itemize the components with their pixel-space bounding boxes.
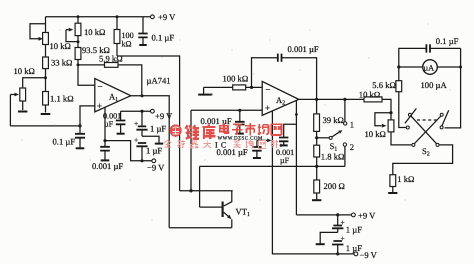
resistor 200 [314, 166, 345, 199]
wire pin5 to -9V [105, 141, 152, 161]
wire A1 output [131, 96, 232, 228]
svg-text:0.1 µF: 0.1 µF [152, 33, 175, 43]
potentiometer 10k (pot2) [66, 17, 105, 42]
capacitor 0.1uF (A1 + input) [53, 126, 86, 148]
node 93.5k / 5.9k / A1 minus [77, 63, 80, 66]
svg-text:10 kΩ: 10 kΩ [14, 66, 35, 76]
svg-text:0.1 µF: 0.1 µF [436, 36, 459, 46]
node -9V / 1uF [140, 159, 143, 162]
capacitor 1uF (upper, bottom pair) [332, 215, 362, 234]
ground under 1.1k [41, 113, 51, 115]
svg-text:kΩ: kΩ [122, 40, 132, 49]
svg-text:10 kΩ: 10 kΩ [50, 41, 71, 51]
wire 100k bias rail to VT1 node [117, 56, 180, 191]
svg-text:1.8 kΩ: 1.8 kΩ [321, 152, 345, 162]
wire A1 pin5 [104, 107, 106, 140]
svg-text:0.1 µF: 0.1 µF [53, 136, 76, 146]
potentiometer 10k (pot3) [10, 66, 35, 126]
node meter right / drop [459, 66, 462, 69]
capacitor 0.001uF (V- bypass) [217, 139, 272, 159]
svg-text:−: − [98, 82, 103, 92]
switch S2 [405, 108, 449, 157]
svg-text:µA741: µA741 [147, 76, 171, 86]
node 10k / pot [389, 111, 392, 114]
terminal +9V (A1) [151, 109, 155, 113]
node A2+ / VT1 [189, 189, 192, 192]
node A2 out / 39k [315, 98, 318, 101]
svg-text:1.1 kΩ: 1.1 kΩ [50, 94, 74, 104]
wire A2 + input [191, 110, 262, 191]
svg-text:1 kΩ: 1 kΩ [397, 174, 414, 184]
resistor 39k [314, 99, 344, 137]
wire top +9V rail [46, 16, 151, 18]
wire 1uF midpoint to ground [320, 232, 338, 243]
watermark text 电子市场网 [220, 123, 282, 135]
svg-text:1: 1 [350, 120, 354, 130]
node A1 output [140, 94, 143, 97]
capacitor 0.001uF (A2 feedback) [252, 44, 319, 99]
svg-text:+: + [134, 136, 138, 145]
node 33k/1.1k junction [44, 76, 47, 79]
scan speckles (decorative, unlabeled) [21, 23, 450, 220]
potentiometer 10k (pot1) [30, 17, 71, 57]
op-amp A2 [262, 81, 299, 115]
wire meter right [437, 66, 461, 68]
node top rail / 100k [116, 15, 119, 18]
ground A2 input [203, 87, 205, 94]
node A2 minus / feedback [250, 86, 253, 89]
svg-text:1 µF: 1 µF [346, 224, 362, 234]
wire bottom-left to A1 + input [10, 106, 94, 126]
wire +9V rail (bottom) [296, 214, 351, 216]
resistor 1.1k [43, 78, 74, 113]
svg-text:2: 2 [350, 142, 354, 152]
resistor 1k [390, 174, 415, 193]
svg-text:+9 V: +9 V [155, 111, 173, 121]
capacitor 0.001uF (V+ bypass) [276, 124, 296, 165]
svg-text:10 kΩ: 10 kΩ [365, 129, 386, 139]
node rail / 1.8k-200 junction [315, 165, 318, 168]
svg-text:1 µF: 1 µF [346, 243, 362, 253]
watermark slogan [164, 140, 278, 149]
watermark text 维库 [186, 125, 216, 140]
svg-text::: : [280, 141, 282, 149]
node meter / 5.6k / 0.1uF [397, 65, 400, 68]
wire A2 output [299, 98, 364, 100]
capacitor 0.001uF (A1 pin) [103, 111, 125, 134]
svg-text:+: + [97, 102, 102, 112]
node -9V / 1uF [336, 252, 339, 255]
node + input / cap [238, 109, 241, 112]
wire A1 minus input [78, 65, 95, 85]
terminal -9V (bottom right) [354, 252, 358, 256]
resistor 33k [43, 57, 73, 78]
capacitor 0.001uF (A2 + input) [201, 110, 245, 133]
resistor 100k (bias, vertical) [114, 17, 134, 56]
wire bias rail (VT1 node) [200, 165, 345, 167]
svg-text:µA: µA [423, 63, 434, 72]
terminal +9V (bottom) [352, 213, 356, 217]
resistor 10k (horizontal) [359, 90, 391, 113]
svg-text:−9 V: −9 V [360, 250, 378, 260]
wire junction to pot3 [23, 78, 46, 88]
svg-text:−: − [265, 85, 270, 95]
svg-text:1 µF: 1 µF [146, 145, 162, 155]
svg-text:5.6 kΩ: 5.6 kΩ [372, 80, 396, 90]
capacitor 1uF (lower, bottom pair) [332, 234, 362, 254]
resistor 5.9k (feedback) [78, 53, 142, 96]
ground under 1k [388, 192, 397, 194]
wire meter left [399, 66, 423, 68]
resistor 100k (A2 input) [204, 74, 263, 90]
node +9V / 1uF [336, 213, 339, 216]
op-amp A1 [95, 79, 131, 113]
terminal +9V (top) [151, 15, 155, 19]
terminal -9V (A1) [152, 159, 156, 163]
node 39k / S1 / 1.8k [315, 136, 318, 139]
capacitor 1uF (upper) [134, 111, 166, 136]
node A2 out / S1 term1 [343, 98, 346, 101]
capacitor 0.1uF (top rail) [138, 17, 174, 45]
svg-text:33 kΩ: 33 kΩ [51, 58, 72, 68]
svg-text:+9 V: +9 V [158, 12, 176, 22]
capacitor 0.1uF (meter) [399, 36, 461, 67]
resistor 5.6k [372, 67, 406, 128]
svg-text:0.001 µF: 0.001 µF [288, 44, 319, 54]
node 1uF / +9V [140, 110, 143, 113]
svg-text:10 kΩ: 10 kΩ [84, 27, 105, 37]
wire +9V stub (A1 supply) [121, 110, 151, 112]
node pot2 / 93.5k [77, 40, 80, 43]
svg-text:39 kΩ: 39 kΩ [323, 115, 344, 125]
svg-text:0.001 µF: 0.001 µF [201, 116, 232, 126]
svg-text:100 kΩ: 100 kΩ [223, 74, 249, 84]
svg-text:200 Ω: 200 Ω [324, 181, 345, 191]
capacitor 1uF (lower) [134, 136, 162, 161]
capacitor 0.001uF (pin5) [92, 141, 123, 172]
ground under 200 [312, 199, 321, 201]
wire right drop to S2 [445, 48, 461, 128]
resistor 93.5k [75, 42, 110, 65]
wire VT1 collector-base tie [180, 166, 233, 207]
switch S1 [317, 99, 354, 166]
svg-text:1 µF: 1 µF [150, 123, 166, 133]
svg-text:100 µA: 100 µA [421, 80, 448, 90]
svg-text:−9 V: −9 V [147, 163, 165, 173]
wire S2 to 1k [393, 145, 453, 175]
wire midpoint to ground [142, 136, 159, 143]
svg-text:+9 V: +9 V [358, 211, 376, 221]
wire A2 V- down to -9V rail [272, 111, 354, 254]
meter uA [421, 60, 448, 90]
svg-text:10 kΩ: 10 kΩ [359, 90, 380, 100]
transistor VT1 [223, 191, 250, 228]
potentiometer 10k (right) [365, 113, 412, 145]
node 0.1uF / + input [78, 124, 81, 127]
wire A2 V+ down to +9V rail [295, 101, 297, 215]
node pin5 [103, 139, 106, 142]
resistor 1.8k [314, 138, 345, 167]
svg-text:5.9 kΩ: 5.9 kΩ [99, 53, 123, 63]
ground under pot3 [18, 111, 27, 113]
svg-text:IC: IC [215, 141, 229, 150]
node top rail / pot2 [77, 15, 80, 18]
svg-text:0.001 µF: 0.001 µF [92, 161, 123, 171]
ground 1uF midpoint (bottom) [316, 243, 325, 245]
ground 1uF midpoint [155, 143, 163, 145]
svg-text:+: + [265, 104, 270, 114]
node V+ line [295, 113, 298, 116]
svg-text:µF: µF [280, 156, 290, 165]
logo disc [169, 124, 181, 136]
svg-text:+: + [134, 119, 138, 128]
